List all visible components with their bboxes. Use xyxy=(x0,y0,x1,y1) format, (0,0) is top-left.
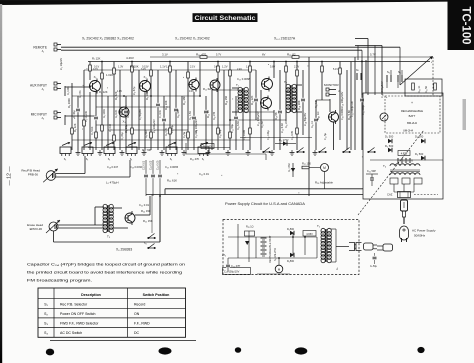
svg-text:C₂₅ 100μ/10V: C₂₅ 100μ/10V xyxy=(224,270,240,273)
svg-text:R₂₈ Adjustable: R₂₈ Adjustable xyxy=(315,181,333,185)
svg-text:R₁₉ 70K: R₁₉ 70K xyxy=(142,148,151,152)
svg-text:TC-100: TC-100 xyxy=(460,7,472,45)
svg-text:R₂₀ 1Ω: R₂₀ 1Ω xyxy=(315,100,318,108)
svg-text:R₂₉ 1Ω: R₂₉ 1Ω xyxy=(246,226,254,229)
svg-text:R₆ 8.2K: R₆ 8.2K xyxy=(115,109,118,118)
svg-text:D₆500: D₆500 xyxy=(287,260,295,263)
svg-text:D₆ 500: D₆ 500 xyxy=(415,152,424,156)
svg-text:0.9V: 0.9V xyxy=(189,90,194,93)
svg-text:R₁₅ 220: R₁₅ 220 xyxy=(285,119,288,128)
svg-text:R₃ 22K: R₃ 22K xyxy=(73,123,77,132)
svg-text:C₂₂ 0.01: C₂₂ 0.01 xyxy=(139,203,150,207)
svg-text:J₁: J₁ xyxy=(41,49,44,53)
svg-text:FM broadcasting program.: FM broadcasting program. xyxy=(27,278,92,282)
svg-text:X₄ 2SC402 X₅ 2SC402: X₄ 2SC402 X₅ 2SC402 xyxy=(175,37,210,41)
svg-text:C₁₁ 50μ: C₁₁ 50μ xyxy=(230,124,234,133)
svg-text:4.95V: 4.95V xyxy=(306,233,313,236)
svg-text:S₄: S₄ xyxy=(44,331,48,335)
svg-text:50/60Hz: 50/60Hz xyxy=(414,234,426,238)
svg-text:X₁: X₁ xyxy=(94,75,97,79)
svg-text:C₄ 10μ: C₄ 10μ xyxy=(124,124,128,133)
svg-text:AUX INPUT: AUX INPUT xyxy=(30,84,47,88)
svg-text:R₂₃ 61K: R₂₃ 61K xyxy=(167,179,177,183)
svg-text:4.95V: 4.95V xyxy=(401,153,408,156)
svg-text:2.4V: 2.4V xyxy=(237,68,242,71)
svg-text:R₂₅ 47K: R₂₅ 47K xyxy=(190,157,200,161)
svg-text:BATT: BATT xyxy=(409,114,416,118)
svg-text:3.1V: 3.1V xyxy=(162,53,168,57)
svg-text:αT₆: αT₆ xyxy=(222,254,226,257)
svg-text:Rec P.B. Selector: Rec P.B. Selector xyxy=(60,302,88,306)
svg-text:5.7V: 5.7V xyxy=(216,54,221,57)
svg-text:R₁₂ 62K: R₁₂ 62K xyxy=(203,87,213,91)
svg-text:3.2V: 3.2V xyxy=(141,68,146,71)
svg-text:R₁₅ 12K: R₁₅ 12K xyxy=(250,95,254,105)
svg-text:R₈ 10K: R₈ 10K xyxy=(130,65,139,69)
svg-text:R₁ 100K: R₁ 100K xyxy=(67,86,70,95)
svg-text:C₁₀ 30μ: C₁₀ 30μ xyxy=(219,129,222,138)
svg-text:D₄ 1732: D₄ 1732 xyxy=(279,138,289,142)
svg-text:X₁ 2SC402 X₂ 2SB382 X₃ 2SC40: X₁ 2SC402 X₂ 2SB382 X₃ 2SC402 xyxy=(82,37,134,41)
svg-text:R₂₄ 330: R₂₄ 330 xyxy=(141,209,151,213)
svg-text:C₅ 47μ: C₅ 47μ xyxy=(132,86,136,95)
svg-text:C₆ 100μ/3V: C₆ 100μ/3V xyxy=(152,119,156,133)
svg-text:R₂₅ 15K: R₂₅ 15K xyxy=(143,219,153,223)
svg-text:S₁: S₁ xyxy=(86,158,89,161)
svg-text:5.1V: 5.1V xyxy=(333,68,338,71)
svg-text:Power ON OFF Switch: Power ON OFF Switch xyxy=(60,312,95,316)
svg-text:R₁₇ 56: R₁₇ 56 xyxy=(274,112,278,120)
svg-text:RECHARGEABLE: RECHARGEABLE xyxy=(401,109,423,113)
svg-text:Capacitor C₂₄ (47pF) bridge: Capacitor C₂₄ (47pF) bridges the looped … xyxy=(27,263,185,267)
svg-text:Switch Position: Switch Position xyxy=(143,293,170,297)
svg-text:1.8V: 1.8V xyxy=(117,90,122,93)
svg-text:D₅ 500: D₅ 500 xyxy=(415,135,424,139)
svg-text:L₂ 475μH: L₂ 475μH xyxy=(106,181,119,185)
svg-text:C₂₄ 47P: C₂₄ 47P xyxy=(231,264,241,268)
svg-text:C₂₉ 1000μ/10V: C₂₉ 1000μ/10V xyxy=(351,101,354,117)
svg-text:C₉ 0.02: C₉ 0.02 xyxy=(195,129,198,138)
svg-text:R₁₄ 150: R₁₄ 150 xyxy=(224,95,228,105)
svg-text:R₁₀ 33K: R₁₀ 33K xyxy=(177,109,180,118)
svg-text:S₁: S₁ xyxy=(202,158,205,161)
svg-text:R₄ 5.6K: R₄ 5.6K xyxy=(91,126,94,135)
svg-text:C₁₄ 5μ: C₁₄ 5μ xyxy=(324,132,327,140)
svg-text:C₁₉ 0.0039: C₁₉ 0.0039 xyxy=(130,165,143,169)
svg-text:EPRO-36: EPRO-36 xyxy=(30,227,43,231)
svg-text:R₉ 4.7K: R₉ 4.7K xyxy=(165,127,168,136)
svg-text:S₆: S₆ xyxy=(387,70,390,74)
svg-text:S₁: S₁ xyxy=(170,158,173,161)
svg-text:R₃₀ 1K: R₃₀ 1K xyxy=(418,85,421,93)
svg-text:C₁₀ 0.0068: C₁₀ 0.0068 xyxy=(237,77,250,81)
svg-text:CAZ: CAZ xyxy=(387,193,393,197)
svg-text:4.49V: 4.49V xyxy=(126,56,134,60)
svg-text:RECHARGEABLE BATT: RECHARGEABLE BATT xyxy=(269,235,272,263)
svg-text:MONITOR: MONITOR xyxy=(324,83,339,87)
svg-text:R₂₇ 150: R₂₇ 150 xyxy=(302,162,311,166)
svg-text:1.1V: 1.1V xyxy=(160,65,166,69)
svg-text:R₂₀ 1Ω: R₂₀ 1Ω xyxy=(316,112,320,120)
svg-text:C₁₂ 100μ/3V: C₁₂ 100μ/3V xyxy=(256,111,260,126)
svg-text:C₃ 10μ/3V: C₃ 10μ/3V xyxy=(85,111,88,122)
svg-text:C₁₃ 0.02: C₁₃ 0.02 xyxy=(280,123,284,133)
svg-text:C₂₂ 0.03: C₂₂ 0.03 xyxy=(150,160,153,170)
svg-text:X₆ 2SB383: X₆ 2SB383 xyxy=(116,248,132,252)
svg-text:the printed circuit board: the printed circuit board to avoid beat … xyxy=(27,271,182,275)
svg-text:R₁₁ 1.5K: R₁₁ 1.5K xyxy=(189,111,192,120)
svg-text:S₃: S₃ xyxy=(44,322,48,326)
svg-text:Cₓ: Cₓ xyxy=(337,267,339,270)
svg-text:T₁: T₁ xyxy=(236,83,239,87)
svg-text:C₆ 50μ/6V: C₆ 50μ/6V xyxy=(139,109,142,120)
svg-text:C₂₀ 0.0065: C₂₀ 0.0065 xyxy=(165,165,179,169)
svg-text:6V: 6V xyxy=(262,53,266,57)
svg-text:S₆: S₆ xyxy=(398,70,401,74)
svg-text:REMOTE: REMOTE xyxy=(33,46,47,50)
svg-text:FWD F.F., RWD Selector: FWD F.F., RWD Selector xyxy=(60,322,99,326)
svg-text:R₇ 2.2K: R₇ 2.2K xyxy=(127,109,130,118)
svg-text:C₂₉ 1000μ/10V: C₂₉ 1000μ/10V xyxy=(381,81,384,98)
svg-text:M: M xyxy=(323,166,326,170)
svg-text:1.3V: 1.3V xyxy=(118,66,123,69)
svg-text:1.6V: 1.6V xyxy=(285,90,290,93)
svg-text:C₂₁ 0.01: C₂₁ 0.01 xyxy=(199,172,209,176)
svg-text:D₅ 500: D₅ 500 xyxy=(385,135,394,139)
svg-text:R₂₆ 100: R₂₆ 100 xyxy=(203,146,212,149)
svg-text:C₁ 10μ/3V: C₁ 10μ/3V xyxy=(59,58,63,70)
svg-text:C₁₂ 100μ: C₁₂ 100μ xyxy=(267,130,270,140)
svg-text:1.01K: 1.01K xyxy=(106,73,113,77)
svg-text:R₇ 12K: R₇ 12K xyxy=(92,57,101,61)
svg-text:0.7V: 0.7V xyxy=(93,68,98,71)
svg-text:AC DC Switch: AC DC Switch xyxy=(60,331,82,335)
svg-text:UM-2H4: UM-2H4 xyxy=(403,129,414,133)
svg-text:R₁₃ 1K: R₁₃ 1K xyxy=(206,110,210,118)
svg-text:R₈ 560: R₈ 560 xyxy=(145,130,148,138)
svg-text:C₈ 5μ: C₈ 5μ xyxy=(183,131,186,138)
svg-text:R₅ 100K: R₅ 100K xyxy=(103,109,106,118)
svg-text:C₁₆ 100μ/10V: C₁₆ 100μ/10V xyxy=(340,92,344,108)
svg-text:S₄: S₄ xyxy=(144,242,147,245)
svg-text:PRB-36: PRB-36 xyxy=(28,173,39,177)
svg-text:S₁: S₁ xyxy=(64,158,67,161)
svg-text:C₂₃ 0.05: C₂₃ 0.05 xyxy=(157,160,160,170)
svg-text:R₄ 12K: R₄ 12K xyxy=(99,90,108,94)
svg-text:C₂₈ 0.0068: C₂₈ 0.0068 xyxy=(341,108,344,120)
svg-text:C₂ 30μ: C₂ 30μ xyxy=(73,110,76,118)
svg-text:C₂₆ 50P: C₂₆ 50P xyxy=(367,170,376,173)
svg-text:Circuit Schematic: Circuit Schematic xyxy=(195,15,257,22)
svg-text:X₃: X₃ xyxy=(122,120,125,124)
svg-text:1.2V: 1.2V xyxy=(222,65,228,69)
svg-text:F.F., RWD: F.F., RWD xyxy=(134,322,150,326)
svg-text:S₁: S₁ xyxy=(108,158,111,161)
svg-text:S₂: S₂ xyxy=(44,312,48,316)
svg-text:ON: ON xyxy=(134,312,140,316)
svg-text:R₁₁ 36K: R₁₁ 36K xyxy=(182,96,186,105)
svg-text:R₁₄ 82: R₁₄ 82 xyxy=(261,120,264,128)
svg-text:R₉ 18K: R₉ 18K xyxy=(145,91,149,100)
svg-text:C₂₁ 0.01: C₂₁ 0.01 xyxy=(143,160,146,170)
svg-text:C₄ 0.04: C₄ 0.04 xyxy=(109,123,112,132)
svg-text:C₁₈ 0.047: C₁₈ 0.047 xyxy=(107,165,119,169)
svg-text:D₆500: D₆500 xyxy=(287,228,295,231)
svg-text:C₁₃ 0.05: C₁₃ 0.05 xyxy=(291,131,294,140)
svg-text:R₂ 200K: R₂ 200K xyxy=(67,98,71,108)
svg-text:Cₓ 50μ: Cₓ 50μ xyxy=(370,266,378,268)
svg-text:AC Power Supply: AC Power Supply xyxy=(412,229,436,233)
svg-text:BM-2H4: BM-2H4 xyxy=(407,121,417,125)
svg-text:C₇ 0.01: C₇ 0.01 xyxy=(159,109,162,118)
svg-text:S₅ UM-2H4: S₅ UM-2H4 xyxy=(274,248,277,261)
svg-text:C₃₀ 100μ: C₃₀ 100μ xyxy=(362,105,365,115)
svg-text:Description: Description xyxy=(81,293,101,297)
svg-text:R₃ 47K: R₃ 47K xyxy=(79,90,82,98)
svg-text:R₁₈ 18K: R₁₈ 18K xyxy=(297,100,301,110)
svg-text:C₅ 20μ: C₅ 20μ xyxy=(121,132,124,140)
svg-text:R₁₂ 270: R₁₂ 270 xyxy=(213,111,216,120)
svg-text:C₇ 20μ: C₇ 20μ xyxy=(170,124,174,133)
svg-text:5.8V: 5.8V xyxy=(270,66,275,69)
svg-text:D₅ 1732: D₅ 1732 xyxy=(288,163,291,172)
svg-text:MIC INPUT: MIC INPUT xyxy=(31,113,47,117)
svg-text:R₁₀ 10K: R₁₀ 10K xyxy=(164,100,168,110)
svg-text:Power Supply Circuit for U.S: Power Supply Circuit for U.S.A and CANAD… xyxy=(225,202,306,206)
svg-text:C₁₄ 50μ/6V: C₁₄ 50μ/6V xyxy=(303,113,307,126)
svg-text:C₁₁ 0.005: C₁₁ 0.005 xyxy=(243,129,246,140)
svg-text:R₁₃ 6.8K: R₁₃ 6.8K xyxy=(237,121,240,130)
svg-text:DC: DC xyxy=(134,331,140,335)
svg-text:— 12 —: — 12 — xyxy=(7,166,13,186)
svg-text:Record: Record xyxy=(134,302,145,306)
svg-text:+: + xyxy=(411,101,413,105)
svg-text:X₂: X₂ xyxy=(144,75,147,79)
svg-text:R₃₁ 56: R₃₁ 56 xyxy=(425,85,428,93)
svg-text:2.1V: 2.1V xyxy=(190,66,195,69)
svg-text:X₆,₇ 2SD127A: X₆,₇ 2SD127A xyxy=(274,37,296,41)
svg-text:R₁₆ 1K: R₁₆ 1K xyxy=(311,121,314,128)
svg-text:D₆ 500: D₆ 500 xyxy=(385,144,394,148)
svg-text:2.2V: 2.2V xyxy=(294,66,299,69)
